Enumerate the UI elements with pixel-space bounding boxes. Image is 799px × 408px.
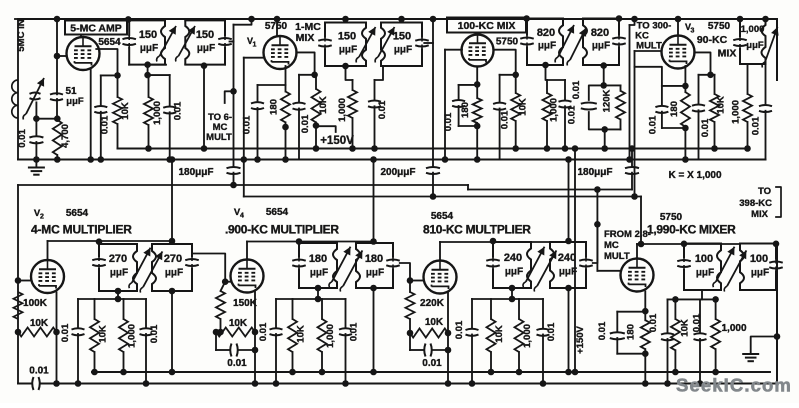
svg-text:180: 180: [460, 102, 471, 118]
svg-text:0.01: 0.01: [443, 112, 454, 131]
resistor R22 220K: [406, 281, 415, 320]
svg-text:μμF: μμF: [538, 41, 556, 52]
tube labels B4: [660, 212, 683, 223]
wire plate lead V4: [247, 242, 374, 260]
tube V 100-KC MIX: [462, 35, 494, 67]
resistor R7 label: [460, 102, 471, 118]
tube V4 labels: [234, 207, 289, 220]
capacitor variable C37: [523, 247, 545, 288]
svg-text:10K: 10K: [30, 318, 49, 329]
wire B3 grid lead: [407, 277, 424, 284]
capacitor variable C6: [157, 26, 176, 62]
resistor R24 label: [494, 325, 505, 343]
tank B1 box1: [92, 244, 137, 291]
svg-text:200μμF: 200μμF: [380, 167, 415, 178]
wire plate lead V2: [48, 241, 173, 260]
wire +150V feed: [572, 145, 579, 375]
svg-text:150: 150: [139, 29, 157, 41]
resistor R5 label: [318, 96, 329, 114]
svg-text:10K: 10K: [518, 98, 529, 116]
resistor R25 1000: [515, 299, 524, 375]
capacitor C11 0.01: [368, 66, 383, 152]
capacitor C35 0.01: [339, 299, 352, 387]
capacitor C16 label: [500, 110, 511, 129]
capacitor C22 label: [648, 115, 659, 134]
node TO 300-KC MULT label: [635, 21, 671, 52]
wire cathode rail T2: [258, 84, 286, 86]
wire mid bus upper: [118, 148, 748, 150]
wire T2 box1 stub: [342, 16, 349, 23]
resistor R21 1000: [318, 299, 327, 375]
capacitor C43 label: [597, 321, 608, 340]
resistor R28 1000: [711, 299, 720, 375]
svg-text:MULT: MULT: [636, 41, 662, 52]
svg-text:10K: 10K: [318, 96, 329, 114]
svg-text:μμF: μμF: [197, 43, 215, 54]
svg-text:4: 4: [240, 213, 244, 220]
svg-text:μμF: μμF: [165, 268, 183, 279]
capacitor C24 0.01: [759, 64, 772, 160]
svg-text:270: 270: [164, 253, 182, 265]
network 120K loop: [581, 85, 621, 129]
resistor R28 label: [721, 323, 746, 334]
wire grid riser T2: [241, 58, 248, 197]
wire B3 box1 corner: [490, 238, 497, 245]
stage T2 title: [295, 21, 321, 44]
tank T1 box2: [185, 20, 231, 64]
tank B4 box2 label: [750, 253, 769, 279]
capacitor C2 51uuF: [50, 16, 63, 119]
wire B2 box2 down: [370, 285, 377, 376]
svg-text:100K: 100K: [23, 298, 48, 309]
resistor R9 label: [549, 98, 560, 122]
wire T3 box2 bottom: [600, 62, 607, 88]
svg-text:100: 100: [750, 253, 768, 265]
svg-text:0.01: 0.01: [258, 322, 269, 341]
wire mixer feed x597: [594, 190, 601, 271]
tank T1 box2 label: [196, 29, 215, 54]
tank B1 box1 label: [109, 253, 128, 279]
svg-text:10K: 10K: [680, 319, 691, 337]
resistor R23 10K: [407, 319, 452, 338]
svg-text:5654: 5654: [431, 211, 454, 222]
wire left input riser: [17, 19, 19, 160]
wire loop feed T4: [635, 67, 662, 86]
capacitor C45 label: [692, 313, 703, 332]
capacitor C10 label: [300, 114, 311, 133]
wire grid riser T3: [442, 50, 449, 163]
svg-text:μμF: μμF: [140, 43, 158, 54]
wire mid bus lower: [18, 159, 766, 161]
tank T3 box2 label: [591, 27, 610, 52]
resistor R13 label: [731, 100, 742, 124]
node T3 box1 corner: [523, 15, 530, 22]
tank B2 box2: [356, 243, 400, 288]
tank B2 box2 label: [365, 253, 384, 279]
svg-text:μμF: μμF: [751, 268, 769, 279]
capacitor variable C25: [762, 27, 779, 68]
capacitor C21 label: [577, 167, 612, 178]
svg-text:0.01: 0.01: [648, 115, 659, 134]
tank T3 box1: [520, 19, 563, 66]
wire 120K loop down: [601, 126, 608, 152]
svg-text:0.01: 0.01: [29, 366, 49, 377]
capacitor C4 0.01 screen: [94, 106, 107, 163]
capacitor C10 0.01 screen: [293, 75, 306, 160]
svg-text:820: 820: [591, 27, 609, 39]
node junction A: [33, 115, 60, 122]
resistor R23 label: [425, 317, 444, 328]
svg-text:820: 820: [537, 27, 555, 39]
tube V3 90-KC MIX: [662, 36, 695, 69]
resistor R18 label: [233, 298, 258, 309]
resistor R13 1000: [743, 64, 752, 152]
coil L1 input: [12, 80, 18, 118]
resistor R2 10K: [113, 75, 122, 148]
wire grid lead V1: [244, 57, 264, 59]
svg-text:220K: 220K: [420, 298, 445, 309]
wire B1 box2 out: [192, 254, 225, 282]
resistor R14 label: [23, 298, 48, 309]
tank T3 box1 label: [537, 27, 556, 52]
tank T4 box: [733, 19, 765, 64]
tank T2 box2 label: [393, 31, 412, 56]
wire B1 box2 down: [169, 288, 176, 376]
resistor R11 180 cathode: [681, 66, 690, 163]
wire screen rail T1: [101, 75, 118, 105]
wire tank rail T1: [144, 65, 169, 79]
svg-text:240: 240: [504, 252, 522, 264]
wire cathode rail T3: [459, 67, 481, 98]
svg-text:TO: TO: [758, 186, 771, 197]
capacitor C23 0.01 screen: [692, 75, 705, 160]
svg-text:180: 180: [269, 99, 280, 115]
node FROM 2.8-MC MULT label: [604, 229, 651, 262]
resistor R8 10K: [511, 75, 520, 152]
capacitor variable C42: [724, 250, 746, 291]
svg-text:0.01: 0.01: [242, 115, 253, 134]
tube V4 900-KC MULT: [231, 260, 264, 293]
resistor R16 label: [98, 325, 109, 343]
wire bottom sub-bus: [92, 371, 770, 373]
resistor R25 label: [522, 324, 533, 348]
wire riser x233 to 180uuF: [233, 25, 235, 166]
resistor R24 10K: [487, 299, 496, 375]
capacitor C2 label: [65, 86, 83, 107]
capacitor variable C27: [129, 248, 151, 289]
capacitor C36 0.01 series: [410, 333, 451, 357]
svg-text:MIX: MIX: [718, 48, 737, 60]
svg-text:0.01: 0.01: [571, 80, 582, 99]
capacitor C40 label: [546, 322, 557, 341]
capacitor C40 0.01: [537, 299, 550, 387]
capacitor C35 label: [349, 322, 360, 341]
wire right edge bus bottom: [776, 242, 778, 384]
svg-text:180μμF: 180μμF: [577, 167, 612, 178]
svg-text:1,000: 1,000: [522, 324, 533, 348]
svg-text:0.01: 0.01: [60, 323, 71, 342]
svg-text:μμF: μμF: [746, 40, 764, 51]
svg-text:0.01: 0.01: [648, 313, 659, 332]
svg-text:0.01: 0.01: [567, 105, 578, 124]
resistor R8 label: [518, 98, 529, 116]
wire mid line y186: [18, 184, 468, 186]
svg-text:0.01: 0.01: [349, 322, 360, 341]
capacitor variable C32: [329, 247, 351, 288]
capacitor C8 label: [178, 167, 213, 178]
capacitor variable C19: [567, 28, 586, 66]
capacitor C36 label: [422, 358, 442, 369]
capacitor C5 label: [173, 101, 184, 120]
capacitor variable C38: [534, 250, 556, 291]
tube V5 1990-KC MIXER: [621, 259, 654, 292]
wire plate lead V1: [274, 16, 281, 37]
svg-text:1: 1: [253, 42, 257, 49]
capacitor C30 label: [149, 324, 160, 343]
capacitor C29 label: [60, 323, 71, 342]
svg-text:150K: 150K: [233, 298, 258, 309]
svg-text:MIX: MIX: [296, 32, 315, 44]
tank B4 box2: [740, 244, 783, 291]
resistor R5 10K: [312, 75, 321, 152]
capacitor C16 0.01 screen: [493, 75, 506, 160]
svg-text:2: 2: [40, 214, 44, 221]
svg-text:180: 180: [365, 253, 383, 265]
tank B3 box1 label: [504, 252, 523, 278]
node T1 box1 stub: [144, 61, 151, 68]
svg-text:5750: 5750: [708, 21, 731, 32]
resistor R10 120K: [616, 85, 625, 129]
stage B1 title: [31, 223, 132, 237]
tank T1 box1 label: [139, 29, 158, 54]
wire jog x468: [467, 185, 469, 190]
capacitor C31 label: [227, 358, 247, 369]
node tap TO 6-MC MULT: [225, 88, 237, 103]
svg-text:μμF: μμF: [592, 41, 610, 52]
svg-text:SeekIC.com: SeekIC.com: [676, 375, 792, 396]
capacitor C9 0.01 cathode: [251, 85, 264, 163]
tube V3 labels: [685, 21, 731, 35]
tube V2 labels: [34, 208, 89, 221]
svg-text:1,000: 1,000: [741, 24, 765, 35]
svg-text:180: 180: [309, 253, 327, 265]
svg-text:MC: MC: [604, 240, 619, 251]
svg-text:0.01: 0.01: [597, 321, 608, 340]
capacitor C34 label: [258, 322, 269, 341]
resistor R20 10K: [288, 299, 297, 375]
wire input node: [36, 118, 57, 120]
resistor R15 label: [30, 318, 49, 329]
svg-text:180: 180: [669, 101, 680, 117]
resistor R26 label: [626, 324, 637, 340]
wire plate lead T1: [80, 35, 82, 38]
tank B1 box2: [152, 244, 199, 291]
wire B1 left column: [17, 185, 19, 332]
svg-text:90-KC: 90-KC: [697, 34, 728, 46]
wire B1 box1 down: [115, 288, 122, 299]
wire B1 left down: [17, 332, 19, 384]
tank T2 box1: [318, 23, 366, 67]
resistor R1 4700: [53, 120, 62, 163]
capacitor C15 0.01 cathode: [452, 85, 480, 129]
wire 5MC input stub: [15, 18, 18, 20]
wire B2 cathode: [252, 292, 259, 387]
tank T4 box label: [741, 24, 765, 51]
svg-text:10K: 10K: [229, 318, 248, 329]
resistor R6 1000: [342, 63, 357, 152]
wire drop x641: [638, 197, 645, 248]
svg-text:1,000: 1,000: [549, 98, 560, 122]
capacitor C14 200uuF: [426, 167, 440, 197]
wire B2 grid lead: [222, 278, 231, 285]
svg-text:MULT: MULT: [206, 132, 232, 143]
capacitor variable C41: [713, 247, 735, 288]
wire grid riser T4: [631, 51, 638, 200]
resistor R15 10K: [15, 328, 60, 337]
tank B3 box2: [550, 242, 593, 288]
svg-text:10K: 10K: [716, 96, 727, 114]
svg-text:0.01: 0.01: [377, 100, 388, 119]
wire T2 box2 stub: [398, 16, 405, 23]
capacitor C39 label: [454, 320, 465, 339]
wire B1 box2 riser: [169, 156, 176, 244]
resistor R1 label: [60, 124, 71, 148]
resistor R6 label: [337, 98, 348, 122]
wire top supply bus: [18, 18, 777, 20]
resistor R2 label: [120, 102, 131, 120]
svg-text:μμF: μμF: [366, 268, 384, 279]
wire B4 cathode: [642, 292, 649, 321]
node TO 398-KC MIX label: [739, 186, 772, 220]
wire B3 top rail: [472, 296, 543, 303]
capacitor C3 label: [17, 129, 28, 148]
capacitor C17 label: [567, 105, 578, 124]
node 5MC IN label: [16, 19, 27, 51]
svg-text:100-KC MIX: 100-KC MIX: [458, 20, 516, 32]
svg-text:150: 150: [338, 31, 356, 43]
wire plate lead V3: [675, 16, 682, 36]
wire interstage riser x204: [201, 62, 208, 151]
svg-text:0.01: 0.01: [700, 118, 711, 137]
node T3 box2 corner: [616, 15, 623, 22]
resistor R27 10K: [671, 299, 680, 375]
tank B3 box1: [486, 242, 531, 288]
svg-text:150: 150: [393, 31, 411, 43]
capacitor C5 0.01: [163, 75, 176, 163]
resistor R22 label: [420, 298, 445, 309]
tube V1 1-MC MIX: [264, 36, 297, 69]
tank B2 box1: [292, 243, 337, 288]
wire B3 box2 down: [565, 285, 572, 376]
box label 5-MC AMP: [65, 21, 127, 35]
box label 100-KC MIX: [447, 18, 526, 33]
capacitor variable C12: [356, 27, 375, 63]
resistor R7 180 cathode: [473, 98, 482, 163]
svg-text:0.01: 0.01: [692, 313, 703, 332]
wire grid lead T3: [445, 49, 462, 51]
wire B1 box1 corner: [96, 238, 103, 245]
wire B3 box2 riser: [565, 156, 572, 244]
resistor R12 label: [716, 96, 727, 114]
svg-text:μμF: μμF: [110, 268, 128, 279]
tank B3 box2 label: [558, 252, 577, 278]
wire B4 top rail: [668, 296, 719, 303]
svg-text:5-MC AMP: 5-MC AMP: [70, 23, 122, 35]
wire B1 top rail: [78, 296, 146, 303]
wire mid line y196: [244, 193, 641, 200]
tube V 5-MC AMP: [67, 37, 100, 70]
resistor R10 label: [602, 90, 613, 113]
capacitor C31 0.01 series: [213, 329, 259, 357]
wire B2 box1 corner: [296, 238, 303, 245]
node K label: [668, 170, 722, 181]
wire bottom main bus: [41, 383, 777, 385]
wire cathode T1: [87, 69, 94, 163]
capacitor C29 0.01: [72, 299, 85, 387]
wire B4 grid feed: [597, 270, 621, 272]
svg-text:5654: 5654: [98, 37, 121, 48]
resistor R27 label: [680, 319, 691, 337]
svg-text:0.01: 0.01: [17, 129, 28, 148]
wire plate lead B4: [637, 244, 740, 259]
wire B4 box2 corner: [773, 241, 780, 248]
wire riser x632 to 180uuF: [629, 145, 636, 166]
capacitor C26 0.01 series: [29, 366, 49, 391]
svg-text:5654: 5654: [266, 207, 289, 218]
capacitor C44 0.01: [661, 299, 674, 386]
svg-text:0.01: 0.01: [546, 322, 557, 341]
svg-text:0.01: 0.01: [100, 115, 111, 134]
resistor R3 label: [152, 101, 163, 125]
wire grid lead V3: [635, 50, 662, 52]
capacitor variable C18: [555, 25, 574, 63]
capacitor C45 0.01: [694, 299, 707, 386]
svg-text:1,000: 1,000: [325, 324, 336, 348]
tube V 810-KC MULT: [424, 261, 457, 294]
svg-text:μμF: μμF: [66, 96, 84, 107]
wire B4 box1 down: [701, 290, 703, 299]
resistor R17 label: [127, 324, 138, 348]
svg-text:10K: 10K: [98, 325, 109, 343]
wire screen drop T1: [96, 49, 120, 79]
wire B4 box1 corner: [681, 241, 688, 248]
resistor R19 label: [229, 318, 248, 329]
tank B2 box1 label: [309, 253, 328, 279]
wire bus jog T2: [234, 16, 255, 25]
capacitor C11 label: [377, 100, 388, 119]
capacitor C9 label: [242, 115, 253, 134]
node TO 6-MC MULT label: [206, 112, 232, 143]
svg-text:MULT: MULT: [604, 251, 630, 262]
svg-text:μμF: μμF: [505, 267, 523, 278]
resistor R4 180 cathode: [281, 66, 290, 163]
capacitor C20 0.01 label: [571, 80, 582, 99]
capacitor variable C28: [140, 251, 162, 292]
wire B2 box2 riser: [370, 156, 377, 245]
tank B4 box1: [677, 244, 721, 291]
capacitor C8 180uuF: [227, 167, 241, 188]
capacitor C30 0.01: [140, 299, 153, 387]
svg-text:10K: 10K: [296, 325, 307, 343]
svg-text:+150V: +150V: [320, 135, 354, 147]
svg-text:270: 270: [109, 253, 127, 265]
tank B1 box2 label: [164, 253, 183, 279]
svg-text:100: 100: [695, 253, 713, 265]
wire bottom main bus left: [18, 383, 31, 385]
capacitor variable C13: [375, 27, 394, 63]
wire B3 box2 out: [593, 224, 598, 263]
svg-text:240: 240: [558, 252, 576, 264]
